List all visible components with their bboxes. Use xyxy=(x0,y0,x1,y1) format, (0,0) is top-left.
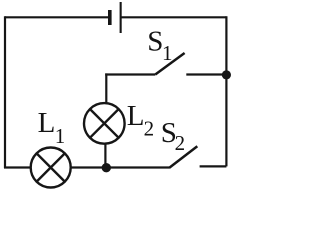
junction node B (bottom) xyxy=(102,163,111,172)
label L2 xyxy=(127,100,154,141)
switch S2 blade (open) xyxy=(169,146,197,168)
wire bottom-left to lamp L1 xyxy=(4,166,31,168)
svg-text:2: 2 xyxy=(144,117,155,141)
wire top from battery negative to top-left corner xyxy=(5,16,108,18)
wire right vertical xyxy=(225,16,227,166)
svg-text:L: L xyxy=(38,107,56,139)
battery positive plate (long thin) xyxy=(120,2,122,33)
wire S1 right terminal to node A xyxy=(186,73,226,75)
svg-text:L: L xyxy=(127,100,145,132)
wire bottom-right to switch S2 fixed contact xyxy=(200,165,227,167)
svg-text:1: 1 xyxy=(162,41,173,65)
lamp L1 xyxy=(31,148,71,188)
label S1 xyxy=(147,26,172,66)
label S2 xyxy=(161,117,185,155)
wire from L2 branch corner to S1 pivot xyxy=(105,73,155,75)
label L1 xyxy=(38,107,66,148)
wire top from battery positive to top-right corner xyxy=(122,16,227,18)
wire bottom from L1 through node B to S2 pivot xyxy=(71,166,169,168)
wire from L2 bottom down to node B xyxy=(104,143,106,168)
svg-text:2: 2 xyxy=(175,131,186,155)
svg-text:1: 1 xyxy=(55,124,65,148)
wire left vertical xyxy=(4,16,6,168)
junction node A (right) xyxy=(222,70,231,79)
wire from L2 top up to S1 branch corner xyxy=(105,73,107,103)
switch S1 blade (open) xyxy=(155,53,184,75)
battery negative plate (short thick) xyxy=(108,10,112,25)
lamp L2 xyxy=(84,103,125,144)
